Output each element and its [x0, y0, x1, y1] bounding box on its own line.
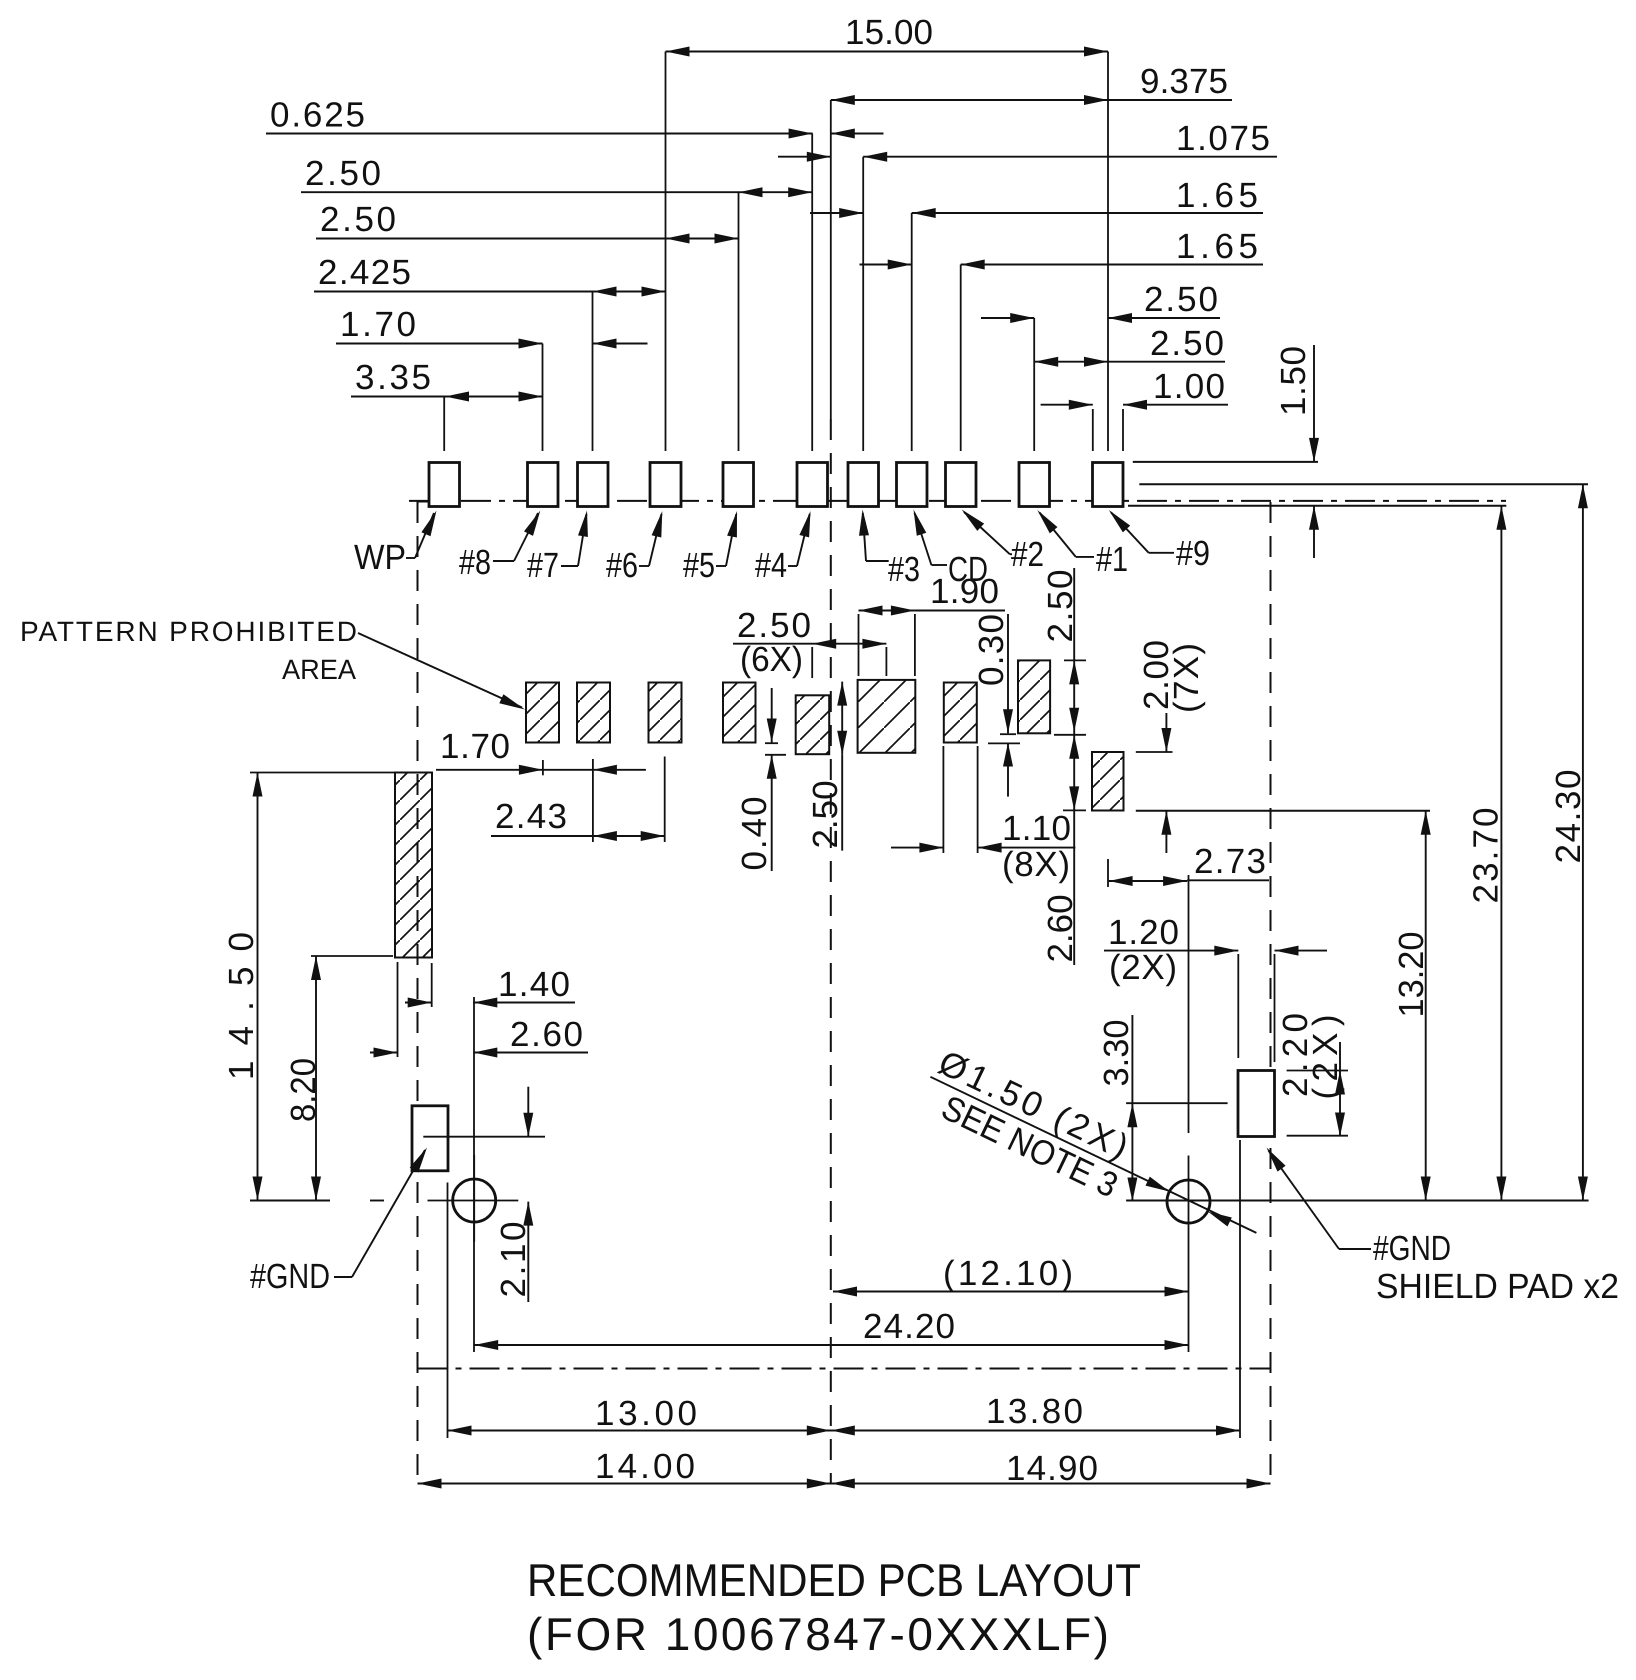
svg-text:2.50: 2.50 [1144, 280, 1218, 319]
shield pad left [412, 1106, 448, 1171]
pad #2 [946, 463, 977, 507]
svg-text:24.20: 24.20 [863, 1307, 955, 1346]
extension line pad 1 center [1033, 318, 1035, 451]
svg-text:2.10: 2.10 [494, 1222, 533, 1298]
extension line shield pad right 13.80 [1239, 1140, 1241, 1438]
outline top-left corner segment [417, 501, 431, 503]
hatched contact pad row 9 low [1092, 752, 1124, 811]
svg-text:23.70: 23.70 [1467, 808, 1506, 904]
dimension 2.50 pads 6-5 lines [316, 238, 739, 240]
svg-text:3.35: 3.35 [355, 358, 431, 397]
pad #4 [797, 463, 828, 507]
baseline right holes [1126, 1200, 1589, 1202]
svg-text:#5: #5 [683, 546, 715, 585]
svg-text:15.00: 15.00 [845, 13, 933, 52]
dimension 2.425 lines [314, 291, 666, 293]
svg-text:#1: #1 [1096, 540, 1128, 579]
dimension 2.10 vertical lines [527, 1087, 529, 1137]
extension line drawing centerline [830, 100, 832, 419]
extension line pad 9 center [1107, 52, 1109, 452]
svg-text:WP: WP [354, 538, 406, 577]
svg-text:(2X): (2X) [1109, 948, 1177, 987]
extension line pad 9 left edge [1092, 409, 1094, 451]
reference line shield pad right bottom [1287, 1135, 1348, 1137]
dimension 1.70 pads lines [336, 343, 543, 345]
baseline left holes [250, 1200, 330, 1202]
svg-text:1.90: 1.90 [930, 572, 999, 611]
dimension 14.50 vertical lines [257, 773, 259, 1201]
extension line hatch pad 4 center [811, 647, 813, 678]
dimension 0.40 vertical lines [771, 688, 773, 743]
svg-text:2.50: 2.50 [320, 200, 396, 239]
dimension 1.90 lines [859, 610, 915, 612]
svg-text:RECOMMENDED PCB LAYOUT: RECOMMENDED PCB LAYOUT [527, 1554, 1141, 1606]
extension line hatch large center [885, 647, 887, 676]
extension line pad 6 center [665, 52, 667, 452]
svg-text:1.40: 1.40 [498, 965, 570, 1004]
reference line shield pad right top [1287, 1070, 1348, 1072]
diameter leader line [930, 1077, 1256, 1233]
extension line right hole center lower [1188, 1244, 1190, 1352]
tick tall pad top [1064, 659, 1086, 661]
svg-text:2.50: 2.50 [305, 154, 381, 193]
leader #8 [493, 560, 514, 562]
svg-text:1.65: 1.65 [1176, 227, 1258, 266]
extension line hatch large right edge [914, 614, 916, 676]
dimension 1.70 hatch lines [436, 769, 543, 771]
shield pad right [1238, 1071, 1275, 1137]
hatched contact pad row 5 offset [796, 695, 830, 754]
hole right crosshair [1188, 1156, 1190, 1245]
dimension 13.20 vertical lines [1425, 811, 1427, 1201]
outline bottom dash-dot edge [418, 1368, 1271, 1370]
svg-text:1.00: 1.00 [1153, 367, 1225, 406]
leader #1 [1076, 556, 1094, 558]
pad #9 [1093, 463, 1124, 507]
dimension 2.50 right inner lines [1034, 361, 1225, 363]
leader #6 [639, 565, 649, 567]
edge line 24.30 upper reference [1139, 483, 1588, 485]
dimension 2.50 pads 5-4 lines [301, 191, 812, 193]
svg-text:1.20: 1.20 [1108, 913, 1179, 952]
dimension 2.73 lines [1109, 880, 1188, 882]
svg-text:#9: #9 [1176, 534, 1210, 573]
dimension 2.50 hatch pitch vertical lines [841, 682, 843, 755]
svg-text:AREA: AREA [282, 654, 356, 685]
hatched contact pad row 8 tall [1018, 660, 1050, 733]
svg-text:(FOR 10067847-0XXXLF): (FOR 10067847-0XXXLF) [527, 1608, 1109, 1660]
dimension 2.60 lines [370, 1052, 398, 1054]
svg-text:#4: #4 [755, 546, 787, 585]
dimension 2.50-2.60 shared vertical line [1073, 568, 1075, 965]
leader #GND right [1339, 1248, 1371, 1250]
extension line side bar right edge [431, 963, 433, 1007]
svg-text:(6X): (6X) [740, 640, 803, 679]
svg-text:#3: #3 [888, 550, 920, 589]
pad CD [897, 463, 928, 507]
svg-text:(7X): (7X) [1167, 643, 1206, 713]
dimension 1.65 CD-3 lines [810, 212, 863, 214]
dimension 2.50 (6X) lines [733, 643, 886, 645]
dimension (12.10) lines [833, 1291, 1189, 1293]
dimension 24.30 vertical lines [1582, 484, 1584, 1200]
svg-text:(8X): (8X) [1002, 845, 1070, 884]
leader #5 [716, 565, 726, 567]
svg-text:0.625: 0.625 [270, 96, 365, 135]
hatched contact pad row 2 [577, 683, 610, 743]
svg-text:1.70: 1.70 [440, 727, 510, 766]
tick 2.60 bottom [1063, 809, 1086, 811]
extension line hatch pad 7 left [942, 746, 944, 853]
svg-text:#2: #2 [1011, 535, 1044, 574]
dimension 3.35 lines [351, 396, 543, 398]
svg-text:14.00: 14.00 [595, 1447, 695, 1486]
extension line hatch pad 7 right [977, 746, 979, 853]
dimension 8.20 vertical lines [315, 956, 317, 1201]
dimension 2.50 right outer lines [981, 317, 1034, 319]
svg-text:1.65: 1.65 [1176, 176, 1258, 215]
svg-text:1.075: 1.075 [1176, 119, 1270, 158]
svg-text:#GND: #GND [250, 1257, 330, 1296]
extension line hatch large left edge [858, 614, 860, 676]
outline center dashed line [830, 419, 832, 1484]
extension line pad CD center [911, 213, 913, 451]
pad WP [429, 463, 460, 507]
reference line side bar top [250, 772, 395, 774]
dimension 0.625 lines [266, 133, 813, 135]
centerline horizontal through pad row [409, 500, 1506, 502]
hole left crosshair [428, 1200, 519, 1202]
dimension 13.00 13.80 lines [448, 1430, 1241, 1432]
extension line hatch pad 2 center [592, 759, 594, 842]
svg-text:2.73: 2.73 [1194, 842, 1266, 881]
extension line right hole center upper [1188, 875, 1190, 1133]
reference line side bar bottom [311, 955, 393, 957]
extension line pad 5 center [738, 192, 740, 451]
hatched contact pad row 3 [649, 683, 682, 743]
dimension 1.00 lines [1041, 404, 1093, 406]
svg-text:2.43: 2.43 [495, 797, 567, 836]
extension line pad 2 center [960, 265, 962, 452]
dimension 14.00 14.90 lines [418, 1483, 1271, 1485]
extension line pad 7 center [592, 292, 594, 452]
extension line shield pad right right-edge [1274, 954, 1276, 1062]
extension line pad WP center [443, 397, 445, 452]
svg-text:#8: #8 [459, 543, 491, 582]
pad bottom extension line right [1128, 505, 1506, 507]
hatched side contact bar left [395, 773, 432, 958]
dimension 24.20 lines [474, 1344, 1188, 1346]
svg-text:1.70: 1.70 [340, 305, 416, 344]
svg-text:3.30: 3.30 [1097, 1020, 1136, 1087]
dimension 1.65 CD-2 lines [860, 264, 912, 266]
svg-text:1.50: 1.50 [1274, 346, 1313, 416]
leader #3 [866, 560, 889, 562]
dimension 15.00 lines [666, 51, 1109, 53]
extension line shield pad right left-edge [1237, 954, 1239, 1058]
pad #1 [1019, 463, 1050, 507]
dimension 1.20 (2X) lines [1104, 950, 1238, 952]
svg-text:#6: #6 [606, 546, 638, 585]
outline left dashed edge [417, 502, 419, 1484]
dimension 0.30 vertical lines [1007, 614, 1009, 733]
svg-text:0.30: 0.30 [972, 614, 1011, 686]
extension line side bar left edge [397, 962, 399, 1057]
svg-text:#GND: #GND [1373, 1229, 1451, 1268]
dimension 1.075 lines [778, 156, 831, 158]
hole left [453, 1179, 496, 1222]
reference line shield pad left mid [423, 1136, 545, 1138]
hatched contact pad row 1 [526, 683, 559, 743]
svg-text:2.60: 2.60 [510, 1015, 583, 1054]
svg-text:#7: #7 [527, 546, 559, 585]
svg-text:1.10: 1.10 [1002, 809, 1071, 848]
svg-text:13.80: 13.80 [986, 1392, 1083, 1431]
leader #9 [1149, 552, 1174, 554]
hatched contact pad row 4 [723, 683, 756, 743]
extension line hatch pad 3 center [664, 757, 666, 843]
extension line pad 4 center [811, 134, 813, 452]
reference line 13.20 top [1136, 810, 1430, 812]
reference line shield pad right mid [1126, 1102, 1228, 1104]
dimension 2.43 lines [491, 835, 593, 837]
leader #7 [561, 565, 578, 567]
svg-text:2.425: 2.425 [318, 253, 411, 292]
hatched contact pad row 7 [944, 683, 977, 743]
svg-text:2.50: 2.50 [806, 781, 845, 849]
pad #6 [650, 463, 681, 507]
outline right dashed edge [1270, 502, 1272, 1485]
extension line left hole center vertical [473, 997, 475, 1352]
pad #8 [528, 463, 559, 507]
dimension 9.375 lines [831, 99, 1232, 101]
svg-text:13.00: 13.00 [595, 1394, 697, 1433]
svg-text:0.40: 0.40 [735, 797, 774, 871]
dimension 1.40 lines [405, 1002, 432, 1004]
hole right [1167, 1180, 1210, 1223]
extension line pad 8 center [542, 344, 544, 452]
extension line pad 9 right edge [1122, 409, 1124, 451]
extension line 13.00 left [447, 1183, 449, 1439]
svg-text:SHIELD PAD x2: SHIELD PAD x2 [1376, 1267, 1619, 1306]
dimension 23.70 vertical lines [1500, 506, 1502, 1201]
pad #3 [848, 463, 879, 507]
leader #4 [788, 565, 797, 567]
leader #2 [1010, 553, 1012, 555]
tick tall pad bottom [1054, 734, 1086, 736]
dimension 3.30 vertical lines [1131, 1015, 1133, 1202]
extension line pad 9 center low [1107, 859, 1109, 887]
dimension 2.20 (2X) vertical lines [1339, 1042, 1341, 1137]
leader CD [931, 564, 947, 566]
hatched contact pad large center [858, 680, 916, 753]
svg-text:8.20: 8.20 [284, 1058, 323, 1122]
leader WP [406, 557, 415, 559]
leader pattern prohibited area [358, 633, 522, 708]
leader #GND left [334, 1276, 352, 1278]
edge line 1.50 upper reference [1133, 461, 1318, 463]
dimension 2.00 (7X) vertical lines [1165, 713, 1167, 752]
svg-text:2.50: 2.50 [1150, 324, 1224, 363]
svg-text:14.90: 14.90 [1006, 1449, 1098, 1488]
dimension 1.50 vertical lines [1313, 345, 1315, 462]
extension line pad 3 center [862, 157, 864, 451]
svg-text:9.375: 9.375 [1140, 62, 1228, 101]
pad #7 [578, 463, 609, 507]
pad #5 [723, 463, 754, 507]
svg-text:(12.10): (12.10) [943, 1254, 1073, 1293]
dimension 1.10 (8X) lines [891, 847, 943, 849]
